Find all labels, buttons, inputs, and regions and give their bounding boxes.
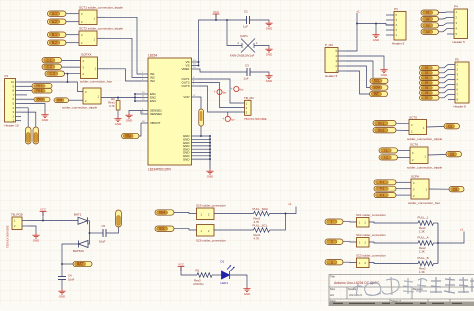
svg-text:SC2 solder_connection: SC2 solder_connection [356,233,386,237]
net-label pad PWM_A [32,84,52,89]
svg-text:L6234PD013TR: L6234PD013TR [148,168,172,172]
P5 pin stubs [448,65,455,100]
svg-text:3: 3 [331,260,333,264]
P4 pin numbers [456,10,458,36]
ground at C3 [265,74,272,79]
wire SB6 to P5 [439,90,448,93]
net-label pad BATT [73,261,92,266]
net-label pad SB2 [420,71,440,76]
wire PULL_B right [434,263,439,265]
svg-text:IN-1: IN-1 [378,121,384,125]
wire to gnd P3 [375,24,377,33]
svg-text:LED1: LED1 [221,281,229,285]
svg-text:PW-A: PW-A [36,85,43,88]
wire BAT54C to battery node [62,244,79,276]
svg-text:VCC: VCC [40,207,46,211]
wire SENSE1 [129,111,141,114]
resistor PULL_B [418,261,434,266]
svg-text:SC6 solder_connection: SC6 solder_connection [196,239,226,243]
junction CAP1 branch [226,19,228,21]
wire SCPXX out stub [98,68,109,70]
svg-text:B-1: B-1 [52,33,57,37]
wire PULL_SDA to x1 [270,207,297,214]
svg-text:OUT3: OUT3 [181,84,189,88]
svg-text:1uF: 1uF [244,77,249,81]
svg-text:PW-C: PW-C [37,98,44,101]
solder connection SC1 [357,218,370,228]
svg-text:P3: P3 [394,7,398,11]
wire SCT2 out stub [97,37,105,39]
svg-text:+: + [231,87,233,91]
svg-text:P-3: P-3 [380,193,385,197]
wire EN3 stub [135,100,141,102]
wire SCT6 out [428,154,446,157]
junction PULL bus [437,242,439,244]
net-label pad SA3 [421,23,439,28]
junction on C-3 wire [67,73,69,75]
svg-text:SENSE2: SENSE2 [150,112,162,116]
net-label pad SCPA in3 [374,193,396,198]
svg-text:2: 2 [331,240,333,244]
svg-text:1.3K: 1.3K [419,270,425,274]
svg-text:C1: C1 [244,10,248,14]
wire pad to SCTa pin2 [69,99,84,101]
wire SCT1 out stub [97,16,105,18]
wire C4 to gnd [61,280,63,290]
wire P1 pin5 to gnd [21,104,45,113]
svg-text:B-2: B-2 [52,41,57,45]
svg-text:INT: INT [374,92,379,96]
connector P4 Header5 [454,9,468,39]
wire LED to gnd [230,275,248,287]
wire SB2 to P5 [439,70,448,73]
wire P1 pin10 to SCTa pin3 [21,82,83,92]
svg-text:1.3K: 1.3K [419,249,425,253]
wire R1 to LED [212,274,222,276]
P3 pin numbers [396,13,398,37]
wire pad to SC1 [343,221,357,223]
P1 pin stubs [16,82,22,121]
wire SC1 to PULL_1 [369,222,418,223]
wire TB_PCB to gnd [27,226,36,233]
svg-text:solder_connection_tripple: solder_connection_tripple [407,166,443,170]
svg-text:x1: x1 [357,9,361,13]
svg-text:solder_connection_tripple: solder_connection_tripple [407,137,443,141]
net-label pad INT [370,91,388,96]
svg-text:GND: GND [266,79,272,83]
wire P1 pin9 [21,85,32,87]
wire SCTa out to EN bus [101,97,141,99]
svg-text:SC1 solder_connection: SC1 solder_connection [356,213,386,217]
svg-text:10nF: 10nF [68,278,75,282]
svg-text:SCT2 solder_connection_tripple: SCT2 solder_connection_tripple [79,27,123,31]
P4 pin stubs [447,12,454,34]
svg-text:GND: GND [183,157,191,161]
net-label pad vertical V1 [25,127,31,144]
junction VS2 [198,65,200,67]
wire SCT2 pin2 [66,42,79,44]
wire PULL_A right [434,242,439,244]
wire SCPA pin3 [396,188,411,190]
net-label pad P_C3 [45,71,65,76]
net-label pad PWM_C [34,97,50,102]
ground at C1 [265,21,272,26]
wire VCC battery stem [42,212,44,221]
wire OUT3 [199,86,241,112]
U1 right pin stubs [192,62,211,159]
net-label pad SA4 [421,29,439,34]
wire x1 to P_I2C pin1 [346,13,357,51]
IC U1 L6234 body [148,58,192,165]
U1 left pin stubs [141,74,148,123]
junction pull bus [285,213,287,215]
wire SCT1 pin2 [66,21,79,23]
junction VCC bat [42,220,44,222]
net-label pad SDA [370,85,388,90]
wire SCPA pin2 [396,194,411,196]
P3 pin stubs [386,15,394,35]
svg-text:VREF: VREF [181,67,189,71]
solder connection SCT1 [79,10,97,25]
wire SCT6 pin2 [398,156,411,158]
svg-text:GND: GND [266,27,272,31]
svg-text:R1: R1 [196,269,200,273]
svg-text:PULL_1: PULL_1 [418,216,429,220]
svg-text:10uF: 10uF [99,240,106,244]
wire VCC to R1 [181,267,197,276]
solder connection SCT2 [79,31,97,46]
net-label pad P_B2 [48,40,67,45]
svg-text:CAP1: CAP1 [240,34,248,38]
connector P3 Header5 [394,12,406,41]
ground battery [58,289,65,294]
svg-text:470Ohm: 470Ohm [193,282,204,286]
wire SB1 to P5 [439,65,448,68]
svg-text:VCP: VCP [183,95,189,99]
svg-text:SCT1 solder_connection_tripple: SCT1 solder_connection_tripple [79,6,123,10]
svg-text:Title: Title [330,275,335,279]
svg-text:SCT6: SCT6 [410,143,418,147]
wire net IN3 [108,69,141,81]
net-label pad P_C1 [42,58,62,63]
solder connection SC5 [197,208,215,220]
TB_M3 pin stubs [241,103,245,112]
svg-text:O1: O1 [448,124,452,128]
wire SB3 to P5 [439,75,448,78]
watermark calligraphy [352,277,427,296]
svg-text:solder_connection_four: solder_connection_four [408,201,440,205]
wire SCT1 pin3 [66,13,79,15]
svg-text:D1: D1 [221,260,225,264]
net-label pad SC3 in [325,260,343,265]
wire EN1 stub [135,93,141,95]
power VCC top [213,14,220,19]
svg-text:PULL_SCL: PULL_SCL [253,224,268,228]
wire diode common [88,221,90,244]
wire VBOOT down [139,123,141,136]
net-label pad SCT5 in2 [373,128,396,133]
resistor PULL_SDA [254,211,270,216]
svg-text:SCT5: SCT5 [409,115,417,119]
net-label pad SB1 [420,66,440,71]
U1 right pin names [181,60,190,161]
net-label pad SB7 [420,96,440,101]
TB_PCB pin numbers [14,219,16,229]
svg-text:GND: GND [207,175,213,179]
wire SENSE tie [140,111,142,115]
wire P1 pin3 down [21,112,36,127]
net-label pad SCL [370,78,388,83]
current probe Iav [214,89,227,94]
power VCC battery [40,212,47,217]
net-label pad VBOOT [122,133,140,138]
wire to CAP1 [227,20,242,46]
ground at P_I2C [380,68,387,73]
wire VS to VCC node [199,20,247,62]
svg-text:P4: P4 [454,5,458,9]
svg-text:x1: x1 [288,202,292,206]
svg-text:BAT54C: BAT54C [73,249,85,253]
svg-text:Header 8: Header 8 [454,105,467,109]
svg-text:PULL_B: PULL_B [418,256,429,260]
svg-text:Icv: Icv [231,117,235,121]
net-label pad SCL in [155,226,174,231]
wire pad to SC6 [174,229,197,230]
wire SCPXX pin3 [62,66,81,68]
wire SCPXX pin4 [62,60,81,62]
title bottom strip [330,302,474,307]
svg-text:GND: GND [42,118,48,122]
svg-text:C5: C5 [102,224,106,228]
svg-text:O2: O2 [450,152,454,156]
wire pad to SC2 [343,241,357,243]
wire TB_PCB to diode [27,220,78,222]
net-label pad SCPA in1 [374,180,396,185]
wire P1 pin4 down [21,108,28,127]
wire SC6 to PULL_SCL [214,229,254,231]
net-label pad P_B1 [48,32,67,37]
svg-text:1: 1 [331,220,333,224]
wire GND bus vertical [209,136,211,169]
net-label pad SB4 [420,81,440,86]
wire to battery pad [62,263,73,265]
U1 pin numbers [142,60,196,123]
svg-text:Ibv: Ibv [240,87,244,91]
net-label pad SC1 in [325,219,343,224]
solder connection SCTa [83,88,101,104]
svg-text:Size: Size [330,287,336,291]
wire P_I2C SCL [346,61,373,79]
wire SCT6 pin3 [398,149,411,151]
svg-text:L6234: L6234 [148,54,157,58]
svg-text:I-2: I-2 [384,155,388,159]
svg-text:VCC: VCC [213,10,219,14]
svg-text:SCL: SCL [374,79,380,83]
svg-text:KNN-ZA1B10V1uF: KNN-ZA1B10V1uF [230,54,255,58]
svg-text:solder_connection_four: solder_connection_four [80,79,112,83]
wire SCT5 out [427,126,445,129]
connector P1 Header10 [5,79,16,123]
svg-text:EN3: EN3 [57,99,62,102]
svg-text:P1: P1 [5,74,9,78]
svg-text:GND: GND [33,239,39,243]
U1 left pin names [150,72,162,125]
solder connection SC2 [357,238,370,248]
junction diode mid [89,232,91,234]
wire pad to SC5 [174,213,197,214]
wire PULL_1 right [434,222,439,224]
svg-text:C3: C3 [245,64,249,68]
svg-text:TB_M3: TB_M3 [244,96,254,100]
junction gnd branch [375,23,377,25]
svg-text:P5: P5 [455,58,459,62]
wire P1 pin6 [21,98,34,100]
svg-text:GND: GND [266,53,272,57]
net-label pad SCT6 in2 [379,155,398,160]
svg-text:VBOOT: VBOOT [150,121,161,125]
watermark glyph cluster [430,277,474,293]
wire SA3 to P4 [439,23,448,25]
net-label pad SCT6 out [446,152,462,157]
svg-text:P_I2C: P_I2C [325,43,334,47]
net-label pad vertical V2 [33,127,39,144]
svg-text:1uF: 1uF [243,25,248,29]
svg-text:BAT1: BAT1 [74,213,82,217]
P1 pin numbers [11,80,15,123]
capacitor C3 [247,68,250,76]
wire C5 to pad [106,227,119,233]
net-label pad P_A1 [48,11,67,16]
net-label pad SCT5 in1 [373,121,396,126]
solder connection SCPA [411,179,429,199]
svg-text:98: 98 [370,282,374,286]
P5 pin numbers [457,63,459,102]
svg-text:O3: O3 [453,187,457,191]
svg-text:solder_connection_tripple: solder_connection_tripple [62,105,98,109]
wire pad to SC3 [343,261,357,263]
capacitor C1 [247,16,250,24]
svg-text:SC5 solder_connection: SC5 solder_connection [196,203,226,207]
svg-text:SCPXX: SCPXX [81,53,92,57]
wire SCT5 pin3 [396,122,409,125]
wire to C5 [90,232,103,234]
svg-text:IN3: IN3 [150,79,155,83]
ground SENSE [125,113,132,118]
svg-text:A-1: A-1 [52,12,57,16]
svg-text:A-2: A-2 [52,20,57,24]
svg-text:Header 10: Header 10 [5,124,19,128]
svg-text:4.7K: 4.7K [254,236,260,240]
wire gnd bend C1 [266,20,269,21]
net-label pad vertical PWR [116,210,122,227]
net-label pad SCT5 out [444,124,460,129]
P_I2C pin numbers [336,49,338,73]
LED D1 [222,266,235,280]
solder connection SCPXX [81,57,98,79]
ground LED [243,287,250,292]
wire PULL bus to x1 [438,232,464,244]
wire SCT5 pin2 [396,129,409,131]
svg-text:GND: GND [126,119,132,123]
svg-text:SDA: SDA [159,211,166,215]
wire PULL bus vertical [437,223,439,264]
net-label pad SA1 [421,10,439,15]
current probe Icv [222,116,235,121]
wire VREF to C3 [199,69,247,72]
ground TB_PCB [32,233,39,238]
wire VS tie [198,62,200,66]
svg-text:PULL_A: PULL_A [418,236,429,240]
wire P1 pin8 [21,90,32,92]
svg-text:VBo: VBo [125,134,131,138]
power VCC led [178,267,185,272]
net-label pad SDA in [155,210,174,215]
svg-text:GND: GND [373,38,379,42]
wire PULL_SCL right [270,229,286,231]
wire probe Icv stem [227,112,229,116]
connector P2 P_I2C [325,48,338,73]
svg-text:C-1: C-1 [47,58,52,62]
net-label pad SB6 [420,91,440,96]
svg-text:VCC: VCC [178,262,184,266]
wire SB7 to P5 [439,95,448,98]
net-label pad SC2 in [325,239,343,244]
svg-text:P-1: P-1 [380,180,385,184]
net-label pad SCPA out [449,187,464,192]
wire SCT2 pin3 [66,34,79,36]
svg-text:x1: x1 [460,228,464,232]
svg-text:+: + [214,90,216,94]
net-label pad PWM_B [32,88,52,93]
net-label pad SB3 [420,76,440,81]
wire SCPA out [429,188,449,190]
TB_M3 pin numbers [246,102,248,115]
svg-text:10: 10 [11,80,14,84]
svg-text:Header 5: Header 5 [325,74,338,78]
wire OUT2 [199,83,241,108]
svg-text:I-1: I-1 [384,148,388,152]
junction battery node [61,263,63,265]
svg-text:C-2: C-2 [47,65,52,69]
net-label pad SB5 [420,86,440,91]
wire branch to C-3 net [67,74,69,82]
svg-text:PW-B: PW-B [36,89,43,92]
svg-text:A3: A3 [426,23,430,27]
wire SC5 to PULL_SDA [214,213,254,215]
wire SB5 to P5 [439,85,448,88]
junction EN2 [134,97,136,99]
svg-text:IN-2: IN-2 [378,128,384,132]
resistor R1 [197,273,212,278]
resistor PULL_A [418,241,434,246]
ground main [206,169,213,174]
terminal block TB_PCB [12,217,22,230]
ground at P3 [372,33,379,38]
wire SA4 to P4 [439,29,448,32]
wire SCPXX pin2 [64,73,81,75]
svg-text:1.3K: 1.3K [419,229,425,233]
diode D3 BAT54C [79,241,89,248]
net-label pad P_A2 [48,19,67,24]
svg-text:TBXXXX-508-03BE: TBXXXX-508-03BE [244,117,267,121]
svg-text:SCL: SCL [159,227,165,231]
solder connection SC3 [357,258,370,268]
junction x1 branch [356,23,358,25]
wire P_I2C SDA [346,66,370,88]
wire C3 to gnd [250,72,269,74]
svg-text:Header 5: Header 5 [453,40,466,44]
svg-text:SDA: SDA [374,86,381,90]
